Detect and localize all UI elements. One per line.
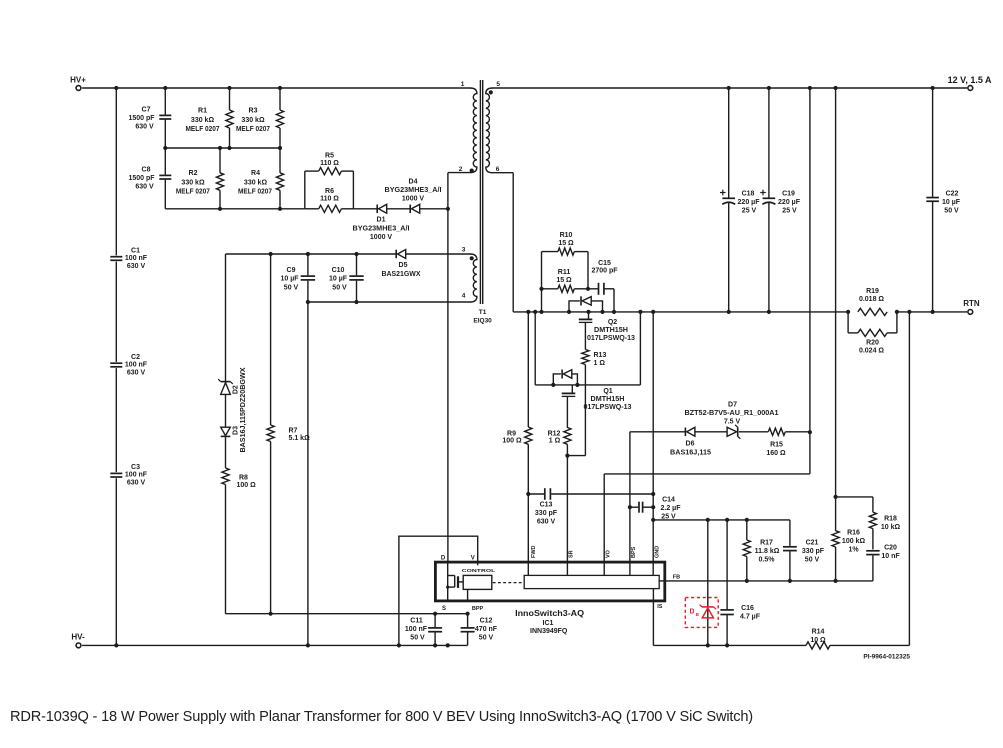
IC secondary block <box>524 575 659 588</box>
transistor Q1 <box>571 385 573 393</box>
svg-text:630 V: 630 V <box>135 124 154 131</box>
svg-text:V: V <box>471 555 475 561</box>
capacitor C8 <box>164 148 166 175</box>
transistor Q1 body diode <box>553 374 561 385</box>
svg-text:50 V: 50 V <box>284 284 299 291</box>
capacitor C14 <box>630 506 638 508</box>
resistor R15 <box>768 428 785 435</box>
wire input cap string <box>115 88 117 255</box>
svg-text:D3: D3 <box>233 426 240 435</box>
svg-text:630 V: 630 V <box>135 184 154 191</box>
capacitor C20 <box>866 550 879 552</box>
svg-text:R17: R17 <box>760 540 773 547</box>
svg-text:7.5 V: 7.5 V <box>724 419 741 426</box>
capacitor C1 <box>110 256 122 258</box>
resistor R17 <box>746 520 748 540</box>
svg-text:INN3949FQ: INN3949FQ <box>530 628 568 635</box>
wire divider top link <box>836 496 873 498</box>
wire upper divider riser <box>835 88 837 531</box>
svg-text:5: 5 <box>496 81 500 88</box>
svg-text:S: S <box>442 606 446 612</box>
wire SR/RTN rail <box>513 311 848 313</box>
svg-text:SR: SR <box>569 550 575 558</box>
svg-text:D5: D5 <box>399 262 408 269</box>
diode D4 <box>409 205 411 214</box>
svg-text:330 kΩ: 330 kΩ <box>241 117 265 124</box>
svg-text:Q1: Q1 <box>603 388 612 395</box>
svg-text:100 nF: 100 nF <box>125 255 148 262</box>
svg-text:C9: C9 <box>287 267 296 274</box>
svg-text:Q2: Q2 <box>608 319 617 326</box>
resistor R9 <box>527 312 529 427</box>
svg-text:25 V: 25 V <box>782 207 797 214</box>
svg-text:R4: R4 <box>251 170 260 177</box>
svg-text:2.2 µF: 2.2 µF <box>661 505 682 512</box>
resistor R2 <box>219 148 221 173</box>
IC CONTROL block <box>463 575 492 589</box>
capacitor C15 <box>588 288 598 290</box>
wire FB latch diode wire <box>707 520 709 646</box>
svg-text:330 pF: 330 pF <box>802 548 825 555</box>
svg-text:11.8 kΩ: 11.8 kΩ <box>755 548 780 555</box>
capacitor C16 <box>726 520 728 610</box>
diode DB red latch diode <box>685 598 718 628</box>
svg-text:1 Ω: 1 Ω <box>549 438 561 445</box>
wire IS return line <box>652 601 654 646</box>
svg-text:BZT52-B7V5-AU_R1_000A1: BZT52-B7V5-AU_R1_000A1 <box>685 410 779 417</box>
svg-text:10 kΩ: 10 kΩ <box>881 524 901 531</box>
capacitor C3 <box>110 472 122 474</box>
svg-text:C18: C18 <box>742 190 755 197</box>
capacitor C22 <box>932 88 934 197</box>
svg-text:330 kΩ: 330 kΩ <box>191 117 215 124</box>
svg-text:0.024 Ω: 0.024 Ω <box>859 348 884 355</box>
wire GND riser <box>652 312 654 562</box>
node HV+ terminal <box>76 86 81 91</box>
svg-text:50 V: 50 V <box>332 284 347 291</box>
capacitor C18 <box>728 88 730 198</box>
svg-text:5.1 kΩ: 5.1 kΩ <box>289 435 311 442</box>
wire clamp bottom rail <box>165 208 304 210</box>
svg-text:10 µF: 10 µF <box>329 276 348 283</box>
capacitor C19 <box>768 88 770 198</box>
svg-text:25 V: 25 V <box>742 207 757 214</box>
resistor R8 <box>222 468 229 485</box>
svg-text:1000 V: 1000 V <box>402 195 425 202</box>
transformer T1 primary winding pins 1-2 <box>470 88 477 173</box>
transistor Q2 <box>588 312 590 319</box>
svg-text:C21: C21 <box>806 540 819 547</box>
svg-text:BAS21GWX: BAS21GWX <box>382 271 421 278</box>
svg-text:C19: C19 <box>782 190 795 197</box>
svg-text:R18: R18 <box>884 516 897 523</box>
svg-text:1500 pF: 1500 pF <box>128 175 155 182</box>
svg-text:110 Ω: 110 Ω <box>320 196 339 203</box>
svg-text:R10: R10 <box>560 232 573 239</box>
IC internal MOSFET <box>447 562 449 601</box>
diode D7 zener <box>727 427 737 436</box>
svg-text:R5: R5 <box>325 152 334 159</box>
svg-text:R16: R16 <box>847 530 860 537</box>
svg-text:10 nF: 10 nF <box>881 553 900 560</box>
svg-text:017LPSWQ-13: 017LPSWQ-13 <box>584 404 632 411</box>
resistor R10 <box>542 251 558 253</box>
svg-text:IS: IS <box>657 604 663 610</box>
svg-text:10 µF: 10 µF <box>280 276 299 283</box>
wire secondary output rail <box>492 87 967 89</box>
svg-text:BAS16J,115: BAS16J,115 <box>670 449 711 456</box>
svg-text:R14: R14 <box>812 629 825 636</box>
svg-text:MELF 0207: MELF 0207 <box>186 126 220 133</box>
svg-text:BPS: BPS <box>631 546 637 558</box>
svg-text:BAS16J,115PDZ20BGWX: BAS16J,115PDZ20BGWX <box>240 367 247 452</box>
svg-text:2: 2 <box>459 166 463 173</box>
svg-text:C3: C3 <box>131 464 140 471</box>
svg-text:2700 pF: 2700 pF <box>591 268 618 275</box>
svg-text:15 Ω: 15 Ω <box>556 277 572 284</box>
svg-text:D1: D1 <box>377 217 386 224</box>
resistor R20 <box>847 312 849 333</box>
wire bias winding pin 4 line <box>308 301 471 303</box>
wire Q1 drain rail <box>534 312 536 385</box>
svg-text:100 Ω: 100 Ω <box>502 438 522 445</box>
svg-text:R19: R19 <box>866 288 879 295</box>
svg-text:R11: R11 <box>558 269 571 276</box>
svg-text:C22: C22 <box>946 190 959 197</box>
svg-text:C12: C12 <box>480 618 493 625</box>
resistor R18 <box>872 497 874 512</box>
svg-text:R13: R13 <box>594 352 607 359</box>
svg-text:1500 pF: 1500 pF <box>128 115 155 122</box>
diode D2 zener <box>221 381 231 383</box>
svg-text:470 nF: 470 nF <box>475 626 498 633</box>
wire primary small-signal ground line <box>226 613 468 615</box>
svg-text:R7: R7 <box>289 427 298 434</box>
resistor R5 <box>304 171 306 209</box>
wire FB line <box>665 580 873 582</box>
svg-text:BPP: BPP <box>472 606 484 612</box>
wire VO sense line <box>603 474 605 562</box>
resistor R1 <box>229 88 231 110</box>
svg-text:C11: C11 <box>410 618 423 625</box>
svg-text:D2: D2 <box>233 385 240 394</box>
svg-text:50 V: 50 V <box>944 207 959 214</box>
svg-text:GND: GND <box>654 546 660 558</box>
svg-text:630 V: 630 V <box>537 519 556 526</box>
wire output sense riser <box>809 88 811 474</box>
svg-text:C20: C20 <box>884 545 897 552</box>
wire clamp mid rail <box>165 147 280 149</box>
IC IC1 InnoSwitch3-AQ body <box>435 562 664 601</box>
svg-text:50 V: 50 V <box>410 635 425 642</box>
resistor R12 <box>564 428 571 445</box>
wire BPS feed line <box>629 432 631 562</box>
svg-text:0.5%: 0.5% <box>759 557 776 564</box>
svg-text:15 Ω: 15 Ω <box>558 240 574 247</box>
svg-text:FB: FB <box>673 574 680 580</box>
svg-text:HV+: HV+ <box>70 75 86 84</box>
svg-text:017LPSWQ-13: 017LPSWQ-13 <box>587 335 635 342</box>
svg-text:630 V: 630 V <box>127 369 146 376</box>
svg-text:630 V: 630 V <box>127 263 146 270</box>
diode D5 <box>395 250 397 259</box>
diode D6 <box>684 428 686 437</box>
svg-text:RTN: RTN <box>963 299 980 308</box>
svg-text:220 µF: 220 µF <box>738 199 761 206</box>
svg-text:R2: R2 <box>189 170 198 177</box>
resistor R19 <box>858 308 887 315</box>
wire SR pin link <box>567 455 585 457</box>
svg-text:C13: C13 <box>540 502 553 509</box>
svg-text:100 kΩ: 100 kΩ <box>842 538 866 545</box>
resistor R7 <box>270 254 272 425</box>
svg-text:1 Ω: 1 Ω <box>594 360 606 367</box>
svg-text:R20: R20 <box>866 340 879 347</box>
svg-text:DMTH15H: DMTH15H <box>594 327 628 334</box>
wire bias winding pin 3 line <box>226 253 396 255</box>
svg-text:D: D <box>689 608 694 615</box>
wire HV+ rail <box>82 87 470 89</box>
svg-text:BYG23MHE3_A/I: BYG23MHE3_A/I <box>353 225 410 232</box>
svg-text:C8: C8 <box>142 167 151 174</box>
svg-text:R8: R8 <box>239 474 248 481</box>
svg-text:C2: C2 <box>131 354 140 361</box>
svg-text:10 µF: 10 µF <box>942 199 961 206</box>
svg-text:160 Ω: 160 Ω <box>766 450 786 457</box>
svg-text:220 µF: 220 µF <box>778 199 801 206</box>
diode D1 <box>353 208 377 210</box>
svg-text:T1: T1 <box>479 309 487 316</box>
diode D3 <box>221 427 231 435</box>
wire R10/R11 box edges <box>541 252 543 312</box>
svg-text:C15: C15 <box>598 260 611 267</box>
svg-text:100 nF: 100 nF <box>125 472 148 479</box>
svg-text:D6: D6 <box>686 441 695 448</box>
capacitor C2 <box>110 362 122 364</box>
svg-text:50 V: 50 V <box>805 557 820 564</box>
resistor R14 <box>806 642 830 649</box>
svg-text:D7: D7 <box>728 402 737 409</box>
svg-text:330 pF: 330 pF <box>535 510 558 517</box>
svg-text:IC1: IC1 <box>543 620 554 627</box>
svg-text:330 kΩ: 330 kΩ <box>181 180 205 187</box>
svg-text:PI-9964-012325: PI-9964-012325 <box>863 654 910 661</box>
svg-text:1000 V: 1000 V <box>370 234 393 241</box>
svg-text:R1: R1 <box>198 108 207 115</box>
svg-text:MELF 0207: MELF 0207 <box>176 189 210 196</box>
resistor R6 <box>305 208 319 210</box>
wire D2 D3 R8 chain <box>225 254 227 381</box>
resistor R11 <box>542 288 558 290</box>
node HV- terminal <box>76 643 81 648</box>
svg-text:R6: R6 <box>325 188 334 195</box>
svg-text:110 Ω: 110 Ω <box>320 160 339 167</box>
resistor R13 <box>582 350 589 365</box>
capacitor C9 <box>307 254 309 275</box>
svg-text:100 Ω: 100 Ω <box>237 482 257 489</box>
node RTN terminal <box>968 310 973 315</box>
capacitor C12 <box>467 614 469 627</box>
svg-text:C7: C7 <box>142 107 151 114</box>
svg-text:1%: 1% <box>848 547 859 554</box>
svg-text:C10: C10 <box>332 267 345 274</box>
svg-text:4.7 µF: 4.7 µF <box>740 614 761 621</box>
svg-text:10 Ω: 10 Ω <box>810 637 826 644</box>
wire feedback mid rail <box>653 519 790 521</box>
transformer T1 bias winding pins 3-4 <box>470 254 477 302</box>
svg-text:330 kΩ: 330 kΩ <box>244 180 268 187</box>
svg-text:D: D <box>441 555 446 561</box>
svg-text:DMTH15H: DMTH15H <box>591 396 625 403</box>
capacitor C11 <box>434 614 436 627</box>
svg-text:50 V: 50 V <box>479 635 494 642</box>
svg-text:InnoSwitch3-AQ: InnoSwitch3-AQ <box>515 609 584 618</box>
svg-text:HV-: HV- <box>71 633 85 642</box>
node 12V output terminal <box>968 86 973 91</box>
resistor R3 <box>279 88 281 110</box>
wire pin6 riser <box>492 172 513 174</box>
svg-text:EIQ30: EIQ30 <box>473 318 492 325</box>
svg-text:4: 4 <box>462 293 466 300</box>
wire bias return line <box>307 302 309 645</box>
svg-text:VO: VO <box>605 549 611 558</box>
capacitor C7 <box>164 88 166 115</box>
svg-text:630 V: 630 V <box>127 480 146 487</box>
capacitor C21 <box>789 520 791 546</box>
svg-text:FWD: FWD <box>531 545 537 558</box>
svg-text:R12: R12 <box>548 430 561 437</box>
svg-text:0.018 Ω: 0.018 Ω <box>859 296 884 303</box>
capacitor C10 <box>356 254 358 275</box>
transformer T1 core <box>479 80 481 304</box>
wire HV- rail <box>82 644 468 646</box>
resistor R16 <box>832 531 839 547</box>
svg-text:3: 3 <box>462 247 466 254</box>
svg-text:R15: R15 <box>770 442 783 449</box>
svg-text:R3: R3 <box>249 108 258 115</box>
svg-text:BYG23MHE3_A/I: BYG23MHE3_A/I <box>385 187 442 194</box>
wire V pin loop <box>399 536 478 645</box>
svg-text:100 nF: 100 nF <box>405 626 428 633</box>
svg-text:100 nF: 100 nF <box>125 361 148 368</box>
svg-text:CONTROL: CONTROL <box>462 568 496 574</box>
svg-text:MELF 0207: MELF 0207 <box>238 189 272 196</box>
wire RTN riser <box>908 312 910 646</box>
svg-text:MELF 0207: MELF 0207 <box>236 126 270 133</box>
resistor R4 <box>279 148 281 173</box>
svg-text:1: 1 <box>461 81 465 88</box>
svg-text:C1: C1 <box>131 247 140 254</box>
transformer T1 secondary winding pins 5-6 <box>486 88 493 173</box>
svg-text:D4: D4 <box>409 178 418 185</box>
svg-text:6: 6 <box>496 166 500 173</box>
svg-text:12 V, 1.5 A: 12 V, 1.5 A <box>948 75 992 85</box>
svg-text:C16: C16 <box>741 605 754 612</box>
wire drain riser to transformer pin 2 <box>447 173 449 562</box>
transistor Q2 body diode <box>569 301 580 312</box>
svg-text:R9: R9 <box>507 430 516 437</box>
svg-text:C14: C14 <box>662 497 675 504</box>
capacitor C13 <box>528 493 544 495</box>
